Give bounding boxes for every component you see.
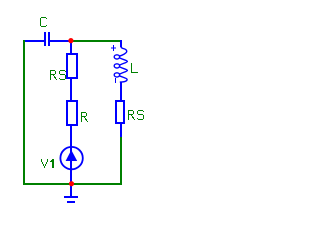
- capacitor C left lead: [25, 40, 44, 42]
- wire: top right net (junction to inductor): [71, 40, 121, 42]
- capacitor C plate 2: [48, 32, 50, 46]
- ground bar 1: [64, 196, 78, 198]
- label R: [81, 112, 88, 122]
- inductor L coil scallops: [119, 47, 127, 83]
- label RS (left): [50, 70, 66, 80]
- wire: bottom horizontal net: [23, 183, 122, 185]
- label L: [131, 63, 138, 73]
- inductor L top lead: [120, 40, 122, 47]
- inductor bottom lead: [120, 82, 122, 101]
- resistor RS (right) body: [115, 100, 125, 124]
- wire: right vertical net (RS bottom to bottom wire): [120, 137, 122, 185]
- wire: left vertical net: [23, 40, 25, 185]
- capacitor C plate 1: [44, 32, 46, 46]
- resistor RS (right) bottom lead: [120, 123, 122, 137]
- inductor L loop ring 1: [114, 55, 119, 59]
- ground stem: [70, 184, 72, 197]
- label RS (right): [128, 110, 144, 120]
- wire: lead RS to R: [70, 78, 72, 102]
- inductor minus mark: [115, 78, 116, 83]
- inductor plus mark: [111, 45, 116, 51]
- current source V1 circle: [60, 147, 82, 169]
- resistor RS (left) top lead: [70, 40, 72, 54]
- resistor RS (left) body: [66, 53, 78, 79]
- inductor L loop ring 2: [114, 64, 119, 68]
- label C: [40, 17, 47, 27]
- node junction top (red dot): [68, 38, 73, 43]
- resistor R body: [66, 100, 78, 126]
- ground bar 2: [67, 201, 75, 203]
- wire: lead R down through V1 to bottom node: [70, 125, 72, 184]
- V1 arrow triangle: [66, 150, 78, 161]
- inductor L loop ring 3: [114, 73, 119, 77]
- node junction bottom (red dot): [69, 181, 74, 186]
- capacitor C right lead: [50, 40, 71, 42]
- label V1: [41, 159, 54, 168]
